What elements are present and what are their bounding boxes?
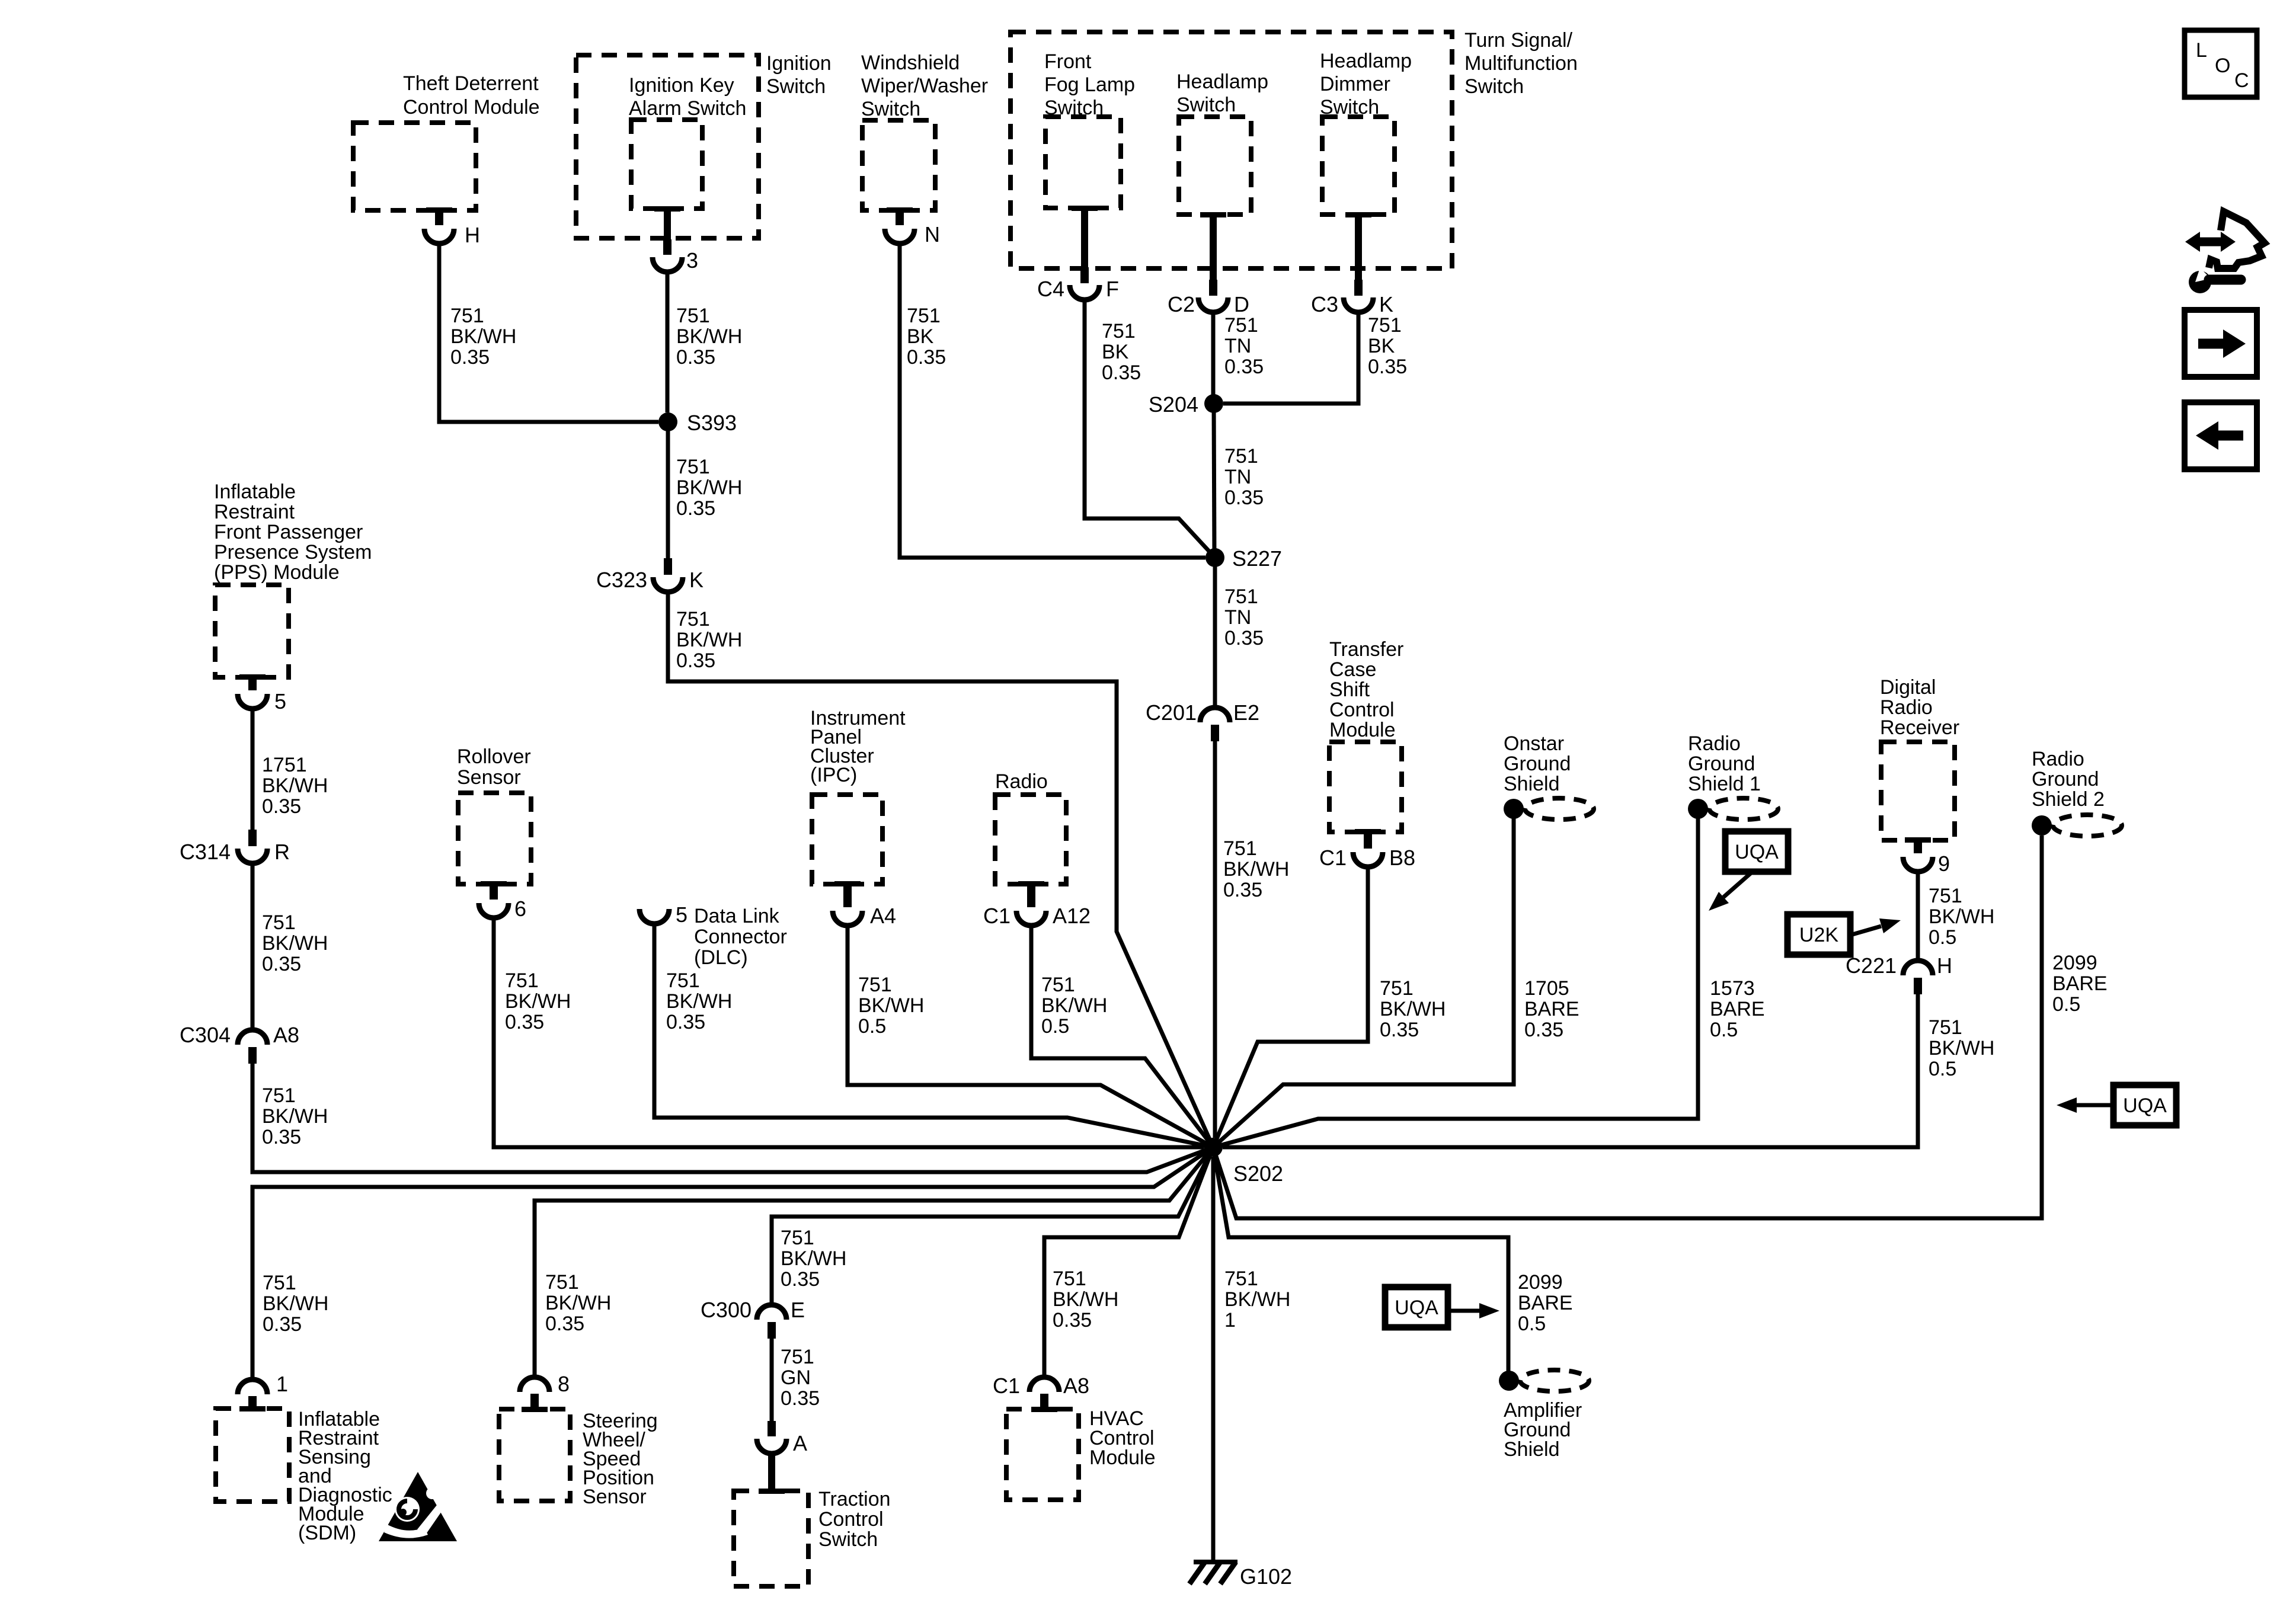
wire 751 BK/WH 0.5 from IPC to S202 [848, 926, 1213, 1147]
wire 751 BK/WH 0.35 from C323 to S202 [668, 592, 1213, 1147]
wire 751 BK/WH 0.35 from C304 to S202 [252, 1064, 1213, 1172]
Radio ground shield 1 terminal dot [1688, 799, 1708, 819]
wire 751 BK/WH 0.35 from C314 to C304 [251, 863, 255, 1030]
option flag box UQA (right side) [2113, 1085, 2176, 1125]
wire 1573 BARE 0.5 from Radio shield 1 to S202 [1213, 818, 1698, 1147]
wire 751 BK 0.35 from pin F to S227 [1085, 300, 1215, 558]
option flag box UQA (Radio Ground Shield 1) [1725, 831, 1788, 872]
svg-text:K: K [689, 568, 703, 592]
connector pin C4-F of Front Fog Lamp Switch [1070, 267, 1099, 300]
wire 751 BK/WH 0.35 from DLC to S202 [654, 924, 1213, 1147]
Radio ground shield 2 terminal dot [2032, 815, 2052, 836]
in-line connector C314 pin R [238, 830, 267, 863]
connector pin 6 of Rollover Sensor [479, 881, 509, 918]
in-line connector C221 pin H [1903, 961, 1933, 994]
module box HVAC Control Module [1006, 1409, 1079, 1500]
svg-text:8: 8 [558, 1372, 570, 1396]
arrow from UQA pointing to Radio shield 2 wire [2057, 1097, 2113, 1113]
svg-text:H: H [465, 223, 480, 247]
arrow from UQA pointing to Amplifier shield wire [1448, 1303, 1499, 1318]
module box Digital Radio Receiver [1881, 742, 1955, 840]
wire 751 BK 0.35 from pin N to S227 [900, 244, 1205, 558]
svg-text:IgnitionSwitch: IgnitionSwitch [766, 52, 832, 98]
connector pin 9 of Digital Radio Receiver [1903, 837, 1933, 872]
connector pin 5 of Data Link Connector (DLC) [639, 909, 669, 924]
svg-text:C1: C1 [1319, 846, 1347, 870]
option flag box UQA (Amplifier shield) [1385, 1287, 1448, 1327]
wire 1705 BARE 0.35 from Onstar shield to S202 [1213, 818, 1514, 1147]
in-line connector C304 pin A8 [238, 1030, 267, 1064]
wire 2099 BARE 0.5 from S202 to Amplifier shield [1213, 1147, 1508, 1371]
svg-text:3: 3 [686, 248, 698, 273]
svg-text:C4: C4 [1037, 277, 1064, 301]
connector pin C3-K of Headlamp Dimmer Switch [1344, 280, 1373, 312]
pin lead into Traction Control Switch box [768, 1454, 775, 1491]
svg-text:Ignition KeyAlarm Switch: Ignition KeyAlarm Switch [629, 74, 746, 120]
svg-text:U2K: U2K [1799, 924, 1838, 946]
wire 751 BK/WH 0.5 from C221 to S202 [1223, 994, 1918, 1147]
in-line connector C323 pin K [653, 558, 683, 592]
svg-text:UQA: UQA [1395, 1297, 1438, 1319]
Onstar ground shield terminal dot [1504, 799, 1524, 819]
connector pin 8 of Steering Wheel/Speed Position Sensor [520, 1377, 549, 1412]
module box Windshield Wiper/Washer Switch [862, 120, 935, 210]
connector pin 1 of SDM [238, 1379, 267, 1411]
wire 751 BK/WH 0.35 from C201 to S202 [1213, 741, 1217, 1138]
wire 751 BK 0.35 from pin K to S204 [1223, 312, 1358, 404]
module box Instrument Panel Cluster [812, 795, 882, 884]
Onstar ground shield dashed ellipse [1525, 798, 1594, 820]
svg-text:A12: A12 [1053, 904, 1091, 928]
svg-text:C323: C323 [596, 568, 647, 592]
wire 751 BK/WH 0.35 from pin 3 to S393 [666, 272, 670, 412]
connector pin N of Windshield Wiper/Washer Switch [885, 207, 914, 244]
connector pin A4 of IPC [833, 881, 862, 926]
connector pin C1-B8 of Transfer Case Shift Control Module [1353, 829, 1383, 867]
outer box Ignition Switch [576, 55, 759, 238]
service/diagnostics pictograph icon [2185, 212, 2265, 293]
connector pin 3 of Ignition Switch [653, 239, 682, 272]
left arrow box icon [2185, 402, 2257, 469]
wire 751 BK/WH 0.35 from S202 to Steering Wheel/Speed Position Sensor [535, 1147, 1213, 1378]
svg-text:5: 5 [274, 689, 286, 713]
svg-text:C304: C304 [180, 1023, 231, 1047]
module box Radio [995, 795, 1066, 884]
svg-text:A4: A4 [870, 904, 896, 928]
svg-text:A8: A8 [1063, 1374, 1089, 1398]
pin lead from Front Fog Lamp Switch through outer box [1072, 206, 1098, 211]
svg-text:K: K [1379, 292, 1393, 316]
svg-text:C201: C201 [1146, 700, 1197, 725]
svg-text:C: C [2234, 69, 2249, 92]
module box Steering Wheel/Speed Position Sensor [499, 1409, 570, 1501]
pin lead from Headlamp Switch through outer box [1200, 212, 1226, 217]
svg-text:G102: G102 [1240, 1564, 1292, 1589]
svg-text:N: N [925, 222, 940, 247]
svg-text:C1: C1 [993, 1374, 1020, 1398]
svg-text:L: L [2196, 39, 2207, 62]
LOC reference box icon [2185, 30, 2257, 97]
svg-text:6: 6 [514, 897, 526, 921]
wire 751 GN 0.35 from C300 to pin A [770, 1339, 774, 1421]
wire 751 BK/WH 1 from S202 to G102 [1211, 1157, 1216, 1560]
Amplifier ground shield terminal dot [1499, 1371, 1519, 1391]
connector pin C2-D of Headlamp Switch [1198, 280, 1228, 312]
Radio ground shield 2 dashed ellipse [2053, 815, 2122, 836]
svg-text:C314: C314 [180, 840, 231, 864]
splice junction S227 [1205, 548, 1224, 567]
wire 751 BK/WH 0.35 from S202 to HVAC Control Module [1044, 1147, 1213, 1378]
wire 751 BK/WH 0.5 from pin 9 to C221 [1916, 872, 1920, 961]
module box Transfer Case Shift Control Module [1329, 742, 1402, 832]
svg-text:D: D [1234, 292, 1249, 316]
wire 1751 BK/WH 0.35 from pin 5 to C314 [251, 710, 255, 831]
inner box Headlamp Dimmer Switch [1322, 117, 1395, 215]
svg-text:R: R [274, 840, 290, 864]
svg-text:5: 5 [676, 902, 687, 927]
module box Rollover Sensor [458, 793, 531, 884]
arrow from U2K to Digital Radio Receiver wire [1850, 918, 1901, 935]
svg-text:O: O [2215, 55, 2230, 77]
ground symbol G102 [1189, 1562, 1237, 1584]
splice junction S204 [1204, 394, 1223, 413]
wire 751 BK/WH 0.35 from pin H to S393 [439, 244, 658, 422]
pin lead from Headlamp Dimmer Switch through outer box [1345, 212, 1371, 217]
svg-text:S204: S204 [1149, 392, 1198, 417]
svg-text:A8: A8 [273, 1023, 299, 1047]
connector pin A of Traction Control Switch [757, 1421, 786, 1454]
svg-text:C221: C221 [1846, 953, 1897, 978]
svg-text:UQA: UQA [1735, 841, 1779, 863]
wire 751 TN 0.35 from pin D to S204 [1211, 312, 1216, 404]
wire 751 BK/WH 0.35 from Rollover Sensor to S202 [494, 918, 1204, 1147]
svg-text:UQA: UQA [2123, 1094, 2167, 1117]
svg-text:B8: B8 [1389, 846, 1415, 870]
svg-text:E2: E2 [1233, 700, 1259, 725]
wire 751 TN 0.35 from S227 to C201 [1213, 558, 1217, 708]
wire 751 TN 0.35 from S204 to S227 [1214, 404, 1214, 558]
in-line connector C201 pin E2 [1200, 708, 1230, 741]
wire 751 BK/WH 0.35 from Transfer Case module to S202 [1213, 867, 1368, 1147]
in-line connector C300 pin E [757, 1305, 786, 1339]
connector pin H of Theft Deterrent Control Module [424, 207, 454, 244]
svg-text:S393: S393 [687, 411, 737, 435]
ground splice junction S202 [1204, 1138, 1223, 1157]
splice junction S393 [658, 412, 677, 431]
airbag warning triangle icon [379, 1472, 457, 1541]
connector pin C1-A8 of HVAC Control Module [1029, 1377, 1059, 1412]
svg-text:9: 9 [1938, 852, 1950, 876]
svg-text:RolloverSensor: RolloverSensor [457, 745, 531, 789]
svg-text:1: 1 [276, 1372, 288, 1396]
svg-text:A: A [793, 1431, 807, 1455]
inner box Front Fog Lamp Switch [1045, 117, 1121, 208]
module box Theft Deterrent Control Module [353, 123, 476, 210]
svg-text:Radio: Radio [995, 770, 1048, 793]
wire 751 BK/WH 0.35 from S202 to SDM pin 1 [252, 1147, 1213, 1380]
option flag box U2K [1787, 914, 1850, 955]
module box Traction Control Switch [734, 1491, 808, 1586]
wire 751 BK/WH 0.35 from S202 to C300 [772, 1147, 1213, 1305]
svg-text:C2: C2 [1168, 292, 1195, 316]
Radio ground shield 1 dashed ellipse [1709, 798, 1778, 820]
svg-text:C3: C3 [1311, 292, 1338, 316]
pin lead from Ignition Key Alarm Switch through Ignition Switch box [654, 206, 680, 212]
svg-text:H: H [1937, 953, 1952, 978]
wire 2099 BARE 0.5 from Radio shield 2 to S202 [1213, 836, 2042, 1218]
svg-text:E: E [791, 1298, 805, 1322]
module box Inflatable Restraint Sensing and Diagnostic Module (SDM) [216, 1409, 289, 1502]
Amplifier ground shield dashed ellipse [1520, 1370, 1589, 1391]
svg-text:C300: C300 [701, 1298, 752, 1322]
arrow from UQA to Radio shield 1 wire [1709, 872, 1753, 911]
module box PPS Module [215, 585, 289, 677]
outer box Turn Signal/Multifunction Switch [1011, 32, 1452, 268]
svg-text:S202: S202 [1233, 1161, 1283, 1186]
svg-text:S227: S227 [1232, 546, 1282, 571]
wire 751 BK/WH 0.5 from Radio to S202 [1031, 926, 1213, 1147]
wire 751 BK/WH 0.35 from S393 to C323 [666, 422, 670, 559]
inner box Ignition Key Alarm Switch [631, 120, 702, 209]
right arrow box icon [2185, 310, 2257, 377]
inner box Headlamp Switch [1179, 117, 1251, 215]
connector pin C1-A12 of Radio [1016, 881, 1046, 926]
connector pin 5 of PPS Module [238, 674, 267, 709]
svg-text:C1: C1 [983, 904, 1011, 928]
svg-text:F: F [1106, 277, 1119, 301]
